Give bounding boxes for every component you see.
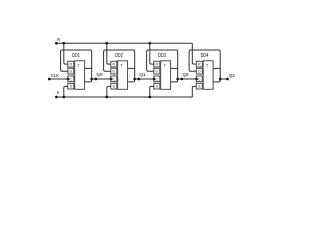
wire Q0 net: [92, 78, 111, 80]
node Q0 marker: [94, 78, 97, 81]
flip-flop DD1 label: [72, 53, 80, 59]
flip-flop DD1 body: [75, 61, 85, 90]
node Q2 marker: [180, 78, 183, 81]
DD1 pin D: [68, 68, 74, 74]
net R label: [57, 37, 60, 43]
flip-flop DD4 label: [201, 53, 209, 59]
svg-text:D: D: [198, 70, 201, 74]
DD1 pin R: [68, 61, 74, 67]
DD2 pin R: [111, 61, 117, 67]
svg-text:D: D: [112, 70, 115, 74]
DD3 pin C: [154, 76, 160, 82]
svg-text:DD1: DD1: [72, 53, 80, 59]
DD2 pin C: [111, 76, 117, 82]
svg-text:DD3: DD3: [158, 53, 166, 59]
net CLK label: [51, 73, 59, 78]
node S rail left terminal: [55, 96, 58, 99]
DD3 pin S: [154, 83, 160, 89]
svg-text:T: T: [121, 64, 123, 69]
node DD4 output junction: [219, 78, 222, 81]
svg-text:T: T: [78, 64, 80, 69]
svg-text:C: C: [112, 77, 115, 81]
svg-text:Q3: Q3: [229, 73, 236, 78]
svg-text:R: R: [198, 63, 201, 67]
net Q2 label: [182, 72, 189, 77]
node DD3 output junction: [176, 78, 179, 81]
node DD2 output junction: [133, 78, 136, 81]
node DD1 output junction: [90, 78, 93, 81]
wire Q1 net: [135, 78, 154, 80]
svg-text:T: T: [164, 64, 166, 69]
DD2 pin S: [111, 83, 117, 89]
svg-text:R: R: [112, 63, 115, 67]
wire R rail to DD2 pin R: [107, 43, 111, 64]
wire S rail: [56, 96, 192, 98]
node S rail junction DD1: [62, 96, 65, 99]
wire R rail: [56, 42, 192, 44]
DD4 pin S: [196, 83, 202, 89]
svg-text:DD4: DD4: [201, 53, 209, 59]
svg-text:D: D: [69, 70, 72, 74]
wire S rail to DD1 pin S: [64, 86, 68, 97]
DD4 pin R: [196, 61, 202, 67]
wire S rail to DD3 pin S: [150, 86, 154, 97]
svg-text:R: R: [57, 37, 60, 43]
svg-text:DD2: DD2: [115, 53, 123, 59]
DD3 pin R: [154, 61, 160, 67]
DD1 pin S: [68, 83, 74, 89]
DD4 pin C: [196, 76, 202, 82]
flip-flop DD3 body: [161, 61, 171, 90]
wire R rail to DD3 pin R: [150, 43, 154, 64]
svg-text:C: C: [69, 77, 72, 81]
svg-text:S: S: [70, 85, 73, 89]
svg-text:R: R: [69, 63, 72, 67]
svg-text:Q1: Q1: [139, 72, 146, 77]
svg-text:R: R: [155, 63, 158, 67]
wire DD2 output Q stub: [128, 67, 135, 69]
svg-text:S: S: [198, 85, 201, 89]
wire DD4 feedback Q to D: [189, 50, 220, 82]
node Q0 at next pin C: [110, 78, 113, 81]
wire CLK: [49, 78, 68, 80]
svg-text:S: S: [57, 90, 59, 96]
node Q1 marker: [137, 78, 140, 81]
node S rail junction DD3: [148, 96, 151, 99]
svg-text:D: D: [155, 70, 158, 74]
svg-text:Q2: Q2: [182, 72, 189, 77]
DD4 pin D: [196, 68, 202, 74]
wire DD1 output Q stub: [85, 67, 92, 69]
svg-text:S: S: [156, 85, 159, 89]
node Q2 at next pin C: [195, 78, 198, 81]
flip-flop DD3 label: [158, 53, 166, 59]
wire DD2 feedback Q to D: [104, 50, 135, 82]
node R rail left terminal: [55, 42, 58, 45]
node CLK at DD1 pin C: [67, 78, 70, 81]
svg-text:T: T: [206, 64, 208, 69]
node CLK terminal: [48, 78, 51, 81]
net Q0 label: [96, 72, 103, 77]
wire R rail to DD1 pin R: [64, 43, 68, 64]
svg-text:C: C: [155, 77, 158, 81]
wire DD4 output Q stub: [213, 67, 220, 69]
wire DD1 feedback Q to D: [61, 50, 92, 82]
flip-flop DD2 body: [118, 61, 128, 90]
node Q1 at next pin C: [153, 78, 156, 81]
node Q3 terminal: [226, 78, 229, 81]
svg-text:Q0: Q0: [96, 72, 103, 77]
node R rail junction DD3: [148, 42, 151, 45]
DD3 pin D: [154, 68, 160, 74]
wire Q2 net: [178, 78, 197, 80]
DD1 pin C: [68, 76, 74, 82]
wire S rail to DD2 pin S: [107, 86, 111, 97]
net Q1 label: [139, 72, 146, 77]
wire R rail to DD4 pin R: [192, 43, 196, 64]
flip-flop DD2 label: [115, 53, 123, 59]
node R rail junction DD2: [105, 42, 108, 45]
net Q3 label: [229, 73, 236, 78]
wire Q3 net: [220, 78, 227, 80]
flip-flop DD4 body: [203, 61, 213, 90]
wire DD3 output Q stub: [171, 67, 178, 69]
node S rail junction DD2: [105, 96, 108, 99]
svg-text:S: S: [113, 85, 116, 89]
wire S rail to DD4 pin S: [192, 86, 196, 97]
svg-text:CLK: CLK: [51, 73, 59, 78]
svg-text:C: C: [198, 77, 201, 81]
wire DD3 feedback Q to D: [147, 50, 178, 82]
net S label: [57, 90, 59, 96]
node R rail junction DD1: [62, 42, 65, 45]
DD2 pin D: [111, 68, 117, 74]
